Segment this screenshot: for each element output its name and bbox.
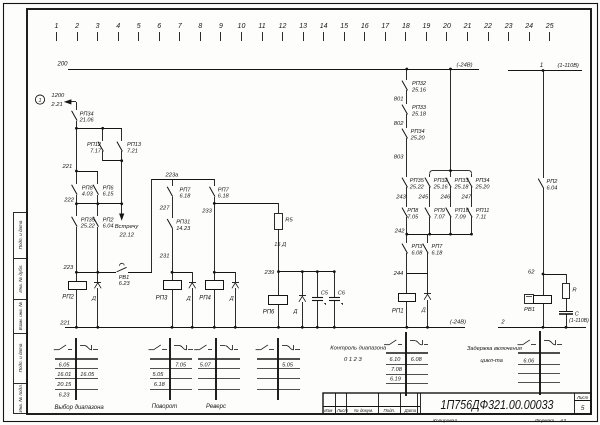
svg-text:6.05: 6.05 (59, 362, 71, 368)
svg-text:РП1: РП1 (392, 308, 404, 314)
wire resistor R top lead (566, 274, 568, 283)
wire contact-box feed from bus (450, 69, 452, 171)
wire RP13-column down to wire 222 (121, 161, 123, 204)
wire RP3-contact to wire 244 (406, 253, 408, 274)
title block inner verticals (336, 393, 575, 414)
svg-text:РП2: РП2 (547, 179, 559, 185)
svg-text:6: 6 (157, 23, 161, 30)
contact box top rail with rounded corners (430, 171, 472, 174)
wire node62 to resistor branch (543, 274, 566, 276)
svg-text:1П756ДФ321.00.00033: 1П756ДФ321.00.00033 (441, 397, 555, 412)
node dot diode branch on wire 223 (96, 271, 99, 274)
off-page arrow down Встречу (121, 204, 123, 214)
relay coil РВ1 time relay (524, 295, 552, 313)
svg-text:25.16: 25.16 (433, 184, 449, 190)
svg-text:7.07: 7.07 (434, 214, 446, 220)
svg-text:РП2: РП2 (103, 217, 115, 223)
svg-text:5: 5 (581, 405, 585, 412)
bottom bus 221 horizontal (65, 327, 465, 329)
contact РП32 25.16 box (425, 178, 449, 191)
wire RP7 6.18 drop upper (427, 234, 429, 243)
node dots wire 222 (75, 202, 78, 205)
svg-text:2: 2 (74, 23, 79, 30)
svg-text:Контроль диапазона: Контроль диапазона (330, 346, 386, 352)
wire box-left column upper (429, 174, 431, 177)
bus 200 (-24V) top horizontal (68, 69, 479, 71)
svg-text:14: 14 (320, 23, 328, 30)
svg-text:200: 200 (57, 62, 69, 68)
node dot bus200/RP1-column (405, 68, 408, 71)
svg-text:19: 19 (423, 23, 431, 30)
svg-text:247: 247 (461, 194, 472, 200)
svg-text:246: 246 (440, 194, 451, 200)
wire 803 segment (406, 138, 408, 177)
resistor R5 (275, 214, 294, 230)
svg-text:6.15: 6.15 (103, 192, 115, 198)
svg-text:РП31: РП31 (176, 220, 190, 226)
svg-text:7.21: 7.21 (127, 148, 138, 154)
diode Д (229, 283, 239, 303)
node dot 233 (213, 271, 216, 274)
svg-text:24: 24 (524, 23, 533, 30)
list cell divider (574, 400, 591, 402)
wire RP2-contact column down to diode (97, 227, 99, 282)
contact РП7 6.18 first (167, 187, 191, 200)
svg-text:15 Д: 15 Д (274, 242, 286, 248)
contact РП33 25.18 series (402, 105, 427, 118)
svg-text:Д: Д (293, 309, 298, 315)
wire v1 RP35 to node 223 (76, 227, 78, 281)
svg-text:Задержка включения: Задержка включения (467, 346, 522, 352)
svg-text:6.18: 6.18 (154, 382, 166, 388)
svg-text:Д: Д (186, 296, 191, 302)
wire node233 to diode branch (214, 272, 235, 274)
wire RP1 column from bus (406, 69, 408, 80)
svg-text:5.05: 5.05 (153, 372, 165, 378)
svg-text:244: 244 (393, 271, 404, 277)
wire diode RP3 to bottom bus (192, 288, 194, 327)
svg-text:23: 23 (504, 23, 513, 30)
svg-text:6.04: 6.04 (547, 185, 558, 191)
svg-text:802: 802 (394, 121, 404, 127)
svg-text:6.10: 6.10 (390, 357, 402, 363)
sheet marker circle 1 (35, 95, 44, 104)
cyclogram table Реверс (194, 338, 240, 410)
wire diode RP1 to bottom bus (427, 300, 429, 327)
svg-text:8: 8 (198, 23, 202, 30)
sidebar divider lines (14, 259, 27, 384)
svg-text:РП7: РП7 (218, 187, 230, 193)
cyclogram table Задержка включения (518, 331, 563, 395)
contact РП3 6.08 (402, 244, 423, 257)
svg-text:Д: Д (421, 307, 426, 313)
svg-text:18: 18 (402, 23, 410, 30)
svg-text:№ докум.: № докум. (354, 408, 373, 413)
svg-text:РП12: РП12 (87, 142, 102, 148)
svg-text:16.01: 16.01 (57, 372, 71, 378)
svg-text:6.18: 6.18 (180, 194, 192, 200)
svg-text:7.05: 7.05 (175, 362, 187, 368)
contact РП6 6.15 (93, 185, 114, 198)
svg-text:5.05: 5.05 (282, 362, 294, 368)
diode Д (421, 294, 431, 314)
title block middle horizontal left section (323, 406, 420, 408)
wire 243 segment (406, 187, 408, 207)
branch wire RP13 upper (121, 128, 123, 141)
wire RP7-2 down to node 233 (214, 197, 216, 281)
svg-text:15: 15 (340, 23, 348, 30)
svg-text:Реверс: Реверс (206, 404, 226, 410)
diode Д (91, 283, 101, 303)
wire 223 riser to wire 223a (151, 179, 153, 272)
svg-text:7.08: 7.08 (391, 367, 403, 373)
svg-text:РП33: РП33 (412, 105, 427, 111)
svg-text:Д: Д (91, 296, 96, 302)
svg-text:16.05: 16.05 (80, 372, 95, 378)
svg-text:223а: 223а (165, 173, 180, 179)
capacitor С6 (329, 291, 346, 305)
svg-text:0 1 2 3: 0 1 2 3 (344, 357, 363, 363)
svg-text:Д: Д (229, 296, 234, 302)
svg-text:25.20: 25.20 (410, 135, 426, 141)
svg-text:25: 25 (545, 23, 554, 30)
svg-text:РП34: РП34 (411, 129, 425, 135)
svg-text:231: 231 (159, 254, 170, 260)
node dot 221 (75, 170, 78, 173)
capacitor С5 (312, 291, 329, 305)
wire node239 to coil RP6 (278, 272, 280, 295)
svg-text:РП8: РП8 (407, 208, 419, 214)
svg-text:1: 1 (540, 63, 543, 69)
svg-text:6.04: 6.04 (103, 224, 114, 230)
relay coil РП3 (156, 281, 182, 302)
svg-text:РП32: РП32 (412, 81, 427, 87)
branch wire RP12 lower (102, 151, 104, 161)
svg-text:РП35: РП35 (410, 178, 425, 184)
contact РП7 6.18 third (423, 244, 444, 257)
svg-text:62: 62 (528, 270, 535, 276)
svg-text:РВ1: РВ1 (524, 307, 535, 313)
svg-text:Изм: Изм (324, 408, 332, 413)
wire R to capacitor C (566, 298, 568, 311)
svg-text:801: 801 (394, 96, 404, 102)
svg-text:2.21: 2.21 (50, 102, 62, 108)
wire diode RP4 branch vertical (235, 272, 237, 282)
svg-text:Копировал: Копировал (433, 418, 457, 424)
diode Д (293, 296, 307, 316)
svg-text:25.22: 25.22 (80, 224, 96, 230)
contact РП2 6.04 right (538, 179, 558, 192)
svg-text:21: 21 (463, 23, 472, 30)
wire C to bottom bus (566, 314, 568, 327)
svg-text:цикл-та: цикл-та (480, 358, 503, 364)
svg-text:25.16: 25.16 (411, 87, 427, 93)
svg-text:222: 222 (63, 198, 74, 204)
wire RP2-right down to node 62 (543, 188, 545, 295)
svg-text:5.07: 5.07 (200, 362, 212, 368)
contact РП34 21.06 (72, 111, 95, 124)
contact РП34 25.20 series (402, 129, 425, 142)
svg-text:РП7: РП7 (432, 244, 444, 250)
svg-text:(-24В): (-24В) (450, 320, 466, 326)
wire diode RP4 to bottom bus (235, 288, 237, 327)
title block outline (323, 393, 591, 414)
capacitor C polarized (559, 311, 580, 317)
svg-text:6.06: 6.06 (523, 359, 535, 365)
svg-text:223: 223 (63, 265, 74, 271)
svg-text:1200: 1200 (51, 93, 65, 99)
wire RP8 to node 242 (406, 217, 408, 243)
wire 223a horizontal (152, 179, 214, 181)
svg-text:221: 221 (59, 321, 70, 327)
contact РП11 7.11 (467, 208, 490, 221)
svg-text:Взам. инв. №: Взам. инв. № (18, 302, 23, 330)
svg-text:Подп.: Подп. (384, 408, 396, 413)
svg-text:Выбор диапазона: Выбор диапазона (55, 405, 105, 411)
diode Д (186, 283, 196, 303)
wire diode RP6 to bottom bus (302, 302, 304, 327)
svg-text:242: 242 (394, 229, 405, 235)
wire R5 to node 239 (278, 229, 280, 272)
wire RP7-drop to wire 244 (427, 253, 429, 274)
svg-text:22: 22 (483, 23, 492, 30)
wire RP7-2 column upper (214, 179, 216, 186)
junction dots on y=128.3 (75, 127, 78, 130)
svg-text:17: 17 (381, 23, 390, 30)
branch wire RP12 upper (102, 128, 104, 141)
svg-text:РП13: РП13 (127, 142, 142, 148)
parallel-branch bottom horizontal (103, 160, 122, 162)
svg-text:РП6: РП6 (263, 310, 275, 316)
bottom bus 2 right horizontal (498, 327, 586, 329)
relay coil РП2 (62, 282, 86, 301)
svg-text:6.18: 6.18 (218, 194, 230, 200)
svg-text:4: 4 (116, 23, 120, 30)
wire node244 to coil RP1 (406, 274, 408, 293)
node dots bottom bus (75, 326, 429, 329)
cyclogram table fourth (256, 338, 300, 400)
svg-text:Дата: Дата (404, 408, 417, 413)
off-page arrow left (64, 99, 72, 104)
wire 802 segment (406, 114, 408, 128)
cyclogram table Контроль диапазона (384, 332, 428, 396)
wire 242 horizontal (407, 234, 472, 236)
contact РП32 25.16 series (402, 81, 427, 94)
svg-text:20: 20 (442, 23, 451, 30)
relay coil РП4 (199, 281, 223, 302)
svg-text:221: 221 (62, 164, 73, 170)
svg-text:Подп. и дата: Подп. и дата (18, 343, 23, 372)
svg-text:РП34: РП34 (476, 178, 490, 184)
contact РП8 7.05 (402, 208, 419, 221)
cyclogram table Выбор диапазона (54, 338, 105, 411)
relay coil РП1 (392, 294, 416, 315)
svg-text:Встречу: Встречу (115, 224, 140, 230)
node dot bus200/contact-box feed (449, 68, 452, 71)
svg-text:1: 1 (55, 23, 59, 30)
svg-text:22.12: 22.12 (119, 233, 135, 239)
branch wire RP13 lower (121, 151, 123, 161)
svg-text:25.20: 25.20 (475, 184, 491, 190)
contact РП8 4.03 (72, 185, 94, 198)
wire v1 below RP34 to node 221 (76, 121, 78, 184)
wire RP6 column upper (97, 171, 99, 184)
svg-text:13: 13 (299, 23, 307, 30)
node dots wire 242 (405, 233, 408, 236)
svg-text:7.09: 7.09 (455, 214, 466, 220)
svg-text:РП7: РП7 (180, 187, 192, 193)
svg-text:6.08: 6.08 (412, 250, 424, 256)
wire RP31 down to node 231 (172, 229, 174, 281)
svg-text:РП9: РП9 (434, 208, 445, 214)
bus 1 (1-110V) top right horizontal (508, 70, 582, 72)
node dot 223 (75, 271, 78, 274)
svg-text:9: 9 (219, 23, 223, 30)
svg-text:РП3: РП3 (156, 295, 168, 301)
wire 239 horizontal (278, 271, 334, 273)
svg-text:25.18: 25.18 (454, 184, 470, 190)
contact РП10 7.09 (446, 208, 470, 221)
wire coil RP3 to bottom bus (172, 289, 174, 327)
svg-text:6.23: 6.23 (119, 281, 131, 287)
relay coil РП6 (263, 296, 288, 316)
wire box-right lower (471, 217, 473, 234)
svg-text:6.18: 6.18 (432, 250, 444, 256)
wire RP6-column to wire 222 (97, 195, 99, 216)
wire from arrow down to contact RP34 (76, 102, 78, 110)
svg-text:7.11: 7.11 (476, 214, 486, 220)
svg-text:14.23: 14.23 (176, 226, 191, 232)
svg-text:Формат: Формат (535, 418, 554, 424)
wire box-left lower (429, 217, 431, 234)
svg-text:(-24В): (-24В) (457, 63, 473, 69)
resistor R (563, 284, 578, 299)
wire box-left middle (429, 187, 431, 207)
wire coil RP2 to bottom bus (76, 290, 78, 327)
svg-text:10: 10 (238, 23, 246, 30)
node dots right bottom bus (542, 326, 545, 329)
contact РП31 14.23 (167, 219, 191, 232)
node dot 231 (171, 271, 174, 274)
wire coil RP6 to bottom bus (278, 304, 280, 327)
node dot branches rejoin (120, 159, 123, 162)
svg-text:Лист: Лист (576, 395, 589, 400)
svg-text:5: 5 (137, 23, 141, 30)
svg-text:233: 233 (201, 209, 212, 215)
wire box-mid middle (450, 187, 452, 207)
svg-text:1: 1 (39, 98, 42, 104)
svg-text:803: 803 (394, 155, 404, 161)
svg-text:6.19: 6.19 (390, 377, 401, 383)
wire C6 branch upper (334, 272, 336, 297)
svg-text:6.08: 6.08 (411, 357, 423, 363)
svg-text:7.17: 7.17 (90, 148, 102, 154)
wire RV1 column from bus 1 (543, 70, 545, 178)
contact РВ1 6.23 time-delay in wire 223 (117, 263, 131, 287)
svg-text:РП4: РП4 (199, 295, 211, 301)
svg-text:3: 3 (96, 23, 100, 30)
svg-text:239: 239 (264, 270, 275, 276)
wire 223 horizontal right part (128, 272, 152, 274)
top ruler numbers 1-25 (55, 23, 554, 30)
node dots wire 239 (277, 270, 280, 273)
contact РП12 7.17 (87, 142, 103, 155)
contact РП35 25.22 grid (402, 178, 425, 191)
wire branch to R5 (214, 203, 278, 205)
svg-text:7.05: 7.05 (407, 214, 419, 220)
junction horizontal y=128.3 (76, 128, 122, 130)
sidebar column box (14, 213, 28, 414)
wire coil RV1 to bottom bus (543, 303, 545, 327)
contact РП9 7.07 (425, 208, 446, 221)
node dot 1 (542, 69, 545, 72)
svg-text:(1-110В): (1-110В) (558, 63, 579, 69)
svg-text:РП11: РП11 (476, 208, 490, 214)
top ruler tick marks (57, 32, 550, 41)
wire 222 horizontal (76, 203, 122, 205)
wire between RP7-1 and RP31 (172, 197, 174, 218)
svg-text:25.18: 25.18 (411, 111, 427, 117)
contact РП35 25.22 (72, 217, 96, 230)
svg-text:245: 245 (418, 194, 429, 200)
svg-text:Инв. № подл.: Инв. № подл. (18, 384, 23, 413)
wire diode RP1 branch vertical (427, 274, 429, 294)
wire coil RP1 to bottom bus (406, 302, 408, 327)
svg-text:4.03: 4.03 (82, 192, 94, 198)
svg-text:РП8: РП8 (82, 185, 94, 191)
wire diode RP2 to bottom bus (97, 288, 99, 327)
contact РП2 6.04 (93, 217, 114, 230)
wire RP7-1 column upper (172, 179, 174, 186)
contact РП33 25.18 box (446, 178, 470, 191)
svg-text:А3: А3 (559, 418, 566, 424)
node dot 62 (542, 273, 545, 276)
wire box-right middle (471, 187, 473, 207)
svg-text:6.23: 6.23 (59, 392, 71, 398)
svg-text:21.06: 21.06 (79, 118, 95, 124)
wire box-mid column upper (450, 171, 452, 177)
wire diode RP3 branch vertical (192, 272, 194, 282)
svg-text:12: 12 (279, 23, 287, 30)
svg-text:РП6: РП6 (103, 185, 115, 191)
node dot R5 branch (213, 202, 216, 205)
wire C5 branch upper (317, 272, 319, 297)
svg-text:Инв. № дубл.: Инв. № дубл. (18, 264, 23, 292)
node dot rail feed (449, 169, 452, 172)
wire box-mid lower (450, 217, 452, 234)
svg-text:11: 11 (258, 23, 265, 30)
svg-text:РП2: РП2 (62, 294, 74, 300)
svg-text:РП34: РП34 (80, 111, 94, 117)
contact РП13 7.21 (117, 142, 142, 155)
wire v1 between RP8 and wire 222 (76, 195, 78, 216)
svg-text:РП3: РП3 (412, 244, 424, 250)
svg-text:(1-110В): (1-110В) (569, 318, 589, 324)
contact РП7 6.18 second (210, 187, 230, 200)
wire C5 to bottom bus (317, 301, 319, 327)
wire 801 segment (406, 90, 408, 104)
svg-text:20.15: 20.15 (56, 382, 72, 388)
wire diode RP6 branch vertical (302, 272, 304, 296)
svg-text:С6: С6 (338, 291, 346, 297)
svg-text:Поворот: Поворот (152, 404, 178, 410)
svg-text:С5: С5 (321, 291, 329, 297)
svg-text:R5: R5 (285, 218, 293, 224)
svg-text:Лист: Лист (336, 408, 349, 413)
svg-text:243: 243 (395, 194, 406, 200)
svg-text:Подп. и дата: Подп. и дата (18, 220, 23, 249)
wire 223 horizontal left part (76, 272, 116, 274)
